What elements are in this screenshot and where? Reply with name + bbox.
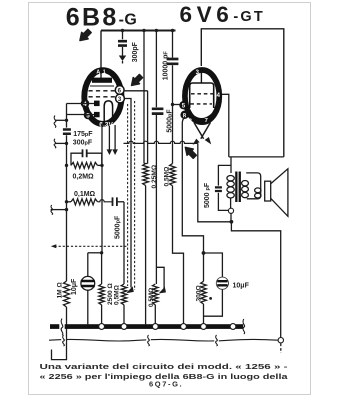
svg-text:7: 7: [205, 118, 208, 124]
tube 6B8-G envelope: [84, 70, 121, 124]
svg-text:6B8-G: 6B8-G: [66, 3, 138, 31]
svg-text:300pF: 300pF: [132, 41, 139, 62]
svg-text:5000pF: 5000pF: [166, 109, 173, 133]
speaker voice coil: [265, 181, 271, 201]
6B8 grid 2 (dashed): [89, 96, 116, 98]
capacitor 300pF (plate bypass): [122, 31, 124, 40]
transformer T1 primary: [230, 157, 232, 173]
shield (dashed) left: [127, 104, 129, 286]
capacitor 10uF (6V6 cathode): [204, 253, 223, 277]
wire 0.25M ohm branch: [144, 31, 148, 164]
6V6 grid1 (dashed): [184, 103, 212, 105]
pin label 4: [81, 99, 90, 108]
svg-text:175pF: 175pF: [73, 131, 93, 138]
capacitor 10000pF: [167, 59, 179, 64]
pin circle 6 (grid cap): [115, 86, 124, 95]
ground bus: [50, 324, 243, 329]
node bus junction x=233: [230, 324, 236, 330]
wire 6B8 grid (shielded) to volume pot wiper: [124, 99, 131, 288]
svg-text:5: 5: [86, 112, 90, 119]
svg-text:300Ω: 300Ω: [195, 284, 202, 301]
pin label 5: [84, 111, 93, 120]
6B8 filament leads: [109, 125, 115, 150]
svg-text:0,5MΩ: 0,5MΩ: [148, 288, 155, 307]
modification arrow (at 6B8 grid pin): [132, 74, 143, 85]
capacitor 300pF parallel box: [71, 153, 102, 165]
break mark bus left: [59, 323, 64, 329]
wire heater return: [49, 339, 278, 341]
resistor 0.2M ohm: [71, 162, 98, 168]
node bus junction x=155.3: [152, 324, 158, 330]
wire diode lead D1: [67, 103, 95, 105]
wire heater line: [124, 141, 198, 143]
svg-text:10μF: 10μF: [233, 282, 250, 289]
svg-text:A: A: [96, 70, 100, 76]
speaker cone: [271, 169, 288, 217]
wire 6B8 pin6 to divider: [124, 90, 148, 92]
svg-text:0,1MΩ: 0,1MΩ: [74, 191, 96, 198]
resistor 0.25M ohm: [143, 164, 149, 186]
node bus junction x=183.5: [181, 324, 187, 330]
svg-text:0,2MΩ: 0,2MΩ: [73, 174, 95, 181]
wire to 5000pF: [98, 200, 112, 202]
svg-text:0,5MΩ: 0,5MΩ: [114, 284, 121, 305]
resistor 0.1M ohm: [71, 199, 98, 205]
wire grid leak to bus: [173, 186, 184, 325]
wire bias network top: [88, 252, 102, 254]
svg-text:300pF: 300pF: [73, 140, 93, 147]
wire 6V6 cathode down: [182, 117, 203, 253]
wiper jog tone pot: [156, 267, 164, 289]
modification arrow (at 6V6 cathode): [185, 147, 196, 158]
svg-text:1M Ω: 1M Ω: [57, 282, 64, 299]
6B8 screen grid line: [90, 85, 114, 87]
node primary bottom: [228, 208, 233, 213]
svg-text:2: 2: [189, 119, 192, 125]
capacitor 10uF (6B8 cathode): [87, 253, 89, 277]
wire 6V6 screen: [222, 94, 229, 157]
wire 6B8 cathode line: [101, 124, 103, 253]
wiper arrow volume pot: [126, 286, 133, 293]
svg-text:5000 pF: 5000 pF: [204, 182, 211, 208]
wire B+ to transformer: [229, 156, 284, 158]
capacitor 175pF: [63, 130, 71, 134]
pin label 8 (cathode): [180, 111, 188, 119]
6V6 plate box: [190, 83, 214, 108]
potentiometer 0.5M ohm (volume): [123, 202, 125, 284]
node 6V6 grid junction: [171, 103, 174, 106]
wire IF input rail: [66, 104, 68, 128]
wire 6B8 plate lead: [100, 31, 102, 79]
wire left rail: [66, 135, 68, 281]
tube 6V6-GT envelope: [185, 70, 219, 122]
6V6 cathode arc: [188, 108, 216, 122]
shield (dashed) right: [134, 101, 136, 290]
svg-text:Una variante del circuito dei: Una variante del circuito dei modd. « 12…: [40, 362, 289, 371]
node bus junction x=124: [121, 324, 127, 330]
node bus junction x=203.5: [201, 324, 207, 330]
svg-text:5000pF: 5000pF: [115, 215, 122, 239]
node heater return end: [278, 338, 283, 343]
node bus junction x=101.6: [99, 324, 105, 330]
svg-text:0,5MΩ: 0,5MΩ: [164, 166, 171, 187]
break mark: [54, 116, 56, 128]
wire 10000pF branch: [172, 31, 174, 58]
wire diode lead D2: [67, 114, 95, 116]
6V6 grid2 (dashed): [191, 93, 217, 95]
6V6 filament: [194, 123, 210, 139]
6V6 plate lead inside: [200, 68, 202, 84]
svg-text:6Q7-G.: 6Q7-G.: [149, 380, 183, 389]
break mark bus right: [243, 319, 245, 334]
svg-text:4: 4: [83, 101, 87, 108]
wire top rail 6B8 plate node: [101, 30, 176, 32]
resistor 0.5M ohm (6V6 grid leak): [170, 164, 176, 186]
resistor 300 ohm: [203, 253, 205, 281]
node IF stub lower: [55, 142, 67, 144]
wire 6V6 plate to B+: [201, 29, 283, 157]
6B8 grid (dashed): [89, 90, 116, 92]
node AVC stub: [51, 209, 67, 211]
modification arrow (top left): [80, 29, 91, 40]
6B8 plate: [92, 78, 112, 83]
svg-text:1: 1: [103, 70, 106, 76]
svg-text:10000 pF: 10000 pF: [163, 51, 170, 81]
wire 6V6 grid to coupling: [173, 104, 183, 106]
pin circle 3: [116, 94, 125, 103]
6B8 diode plate D2: [94, 112, 100, 117]
svg-text:10μF: 10μF: [71, 278, 78, 295]
capacitor 5000pF (tone): [152, 109, 164, 114]
6B8 diode plate D1: [94, 101, 100, 107]
wire speaker field return: [231, 222, 280, 338]
transformer T1 core: [235, 172, 237, 203]
wire 5000pF branch: [155, 31, 157, 108]
shield ground (dashed horizontal): [55, 245, 128, 247]
capacitor 5000pF (across primary): [218, 165, 231, 185]
svg-text:6V6-GT: 6V6-GT: [180, 2, 265, 27]
capacitor 5000pF (AF coupling): [113, 197, 117, 206]
node IF stub upper: [55, 119, 67, 121]
svg-text:0,25MΩ: 0,25MΩ: [151, 164, 158, 188]
resistor 2500 ohm: [101, 253, 103, 284]
6B8 cathode: [104, 101, 112, 124]
pin label 5 (grid): [179, 101, 187, 109]
transformer T1 secondary: [246, 173, 261, 199]
svg-text:2500 Ω: 2500 Ω: [107, 282, 114, 305]
potentiometer 0.5M ohm (tone): [153, 284, 159, 305]
resistor 1M ohm: [64, 281, 70, 307]
